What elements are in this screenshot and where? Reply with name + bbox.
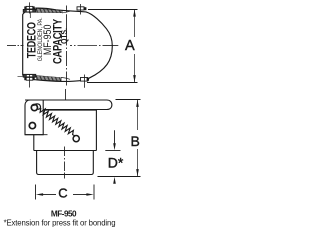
- bracket (lanyard tab): [25, 100, 43, 135]
- horizontal centerline (top view): [7, 45, 118, 47]
- bracket hole bottom: [29, 123, 35, 129]
- dimension D* top arrow and extension: [105, 150, 120, 152]
- side view extension (press-fit spigot): [37, 151, 94, 175]
- svg-text:*Extension for press fit or bo: *Extension for press fit or bonding: [4, 218, 116, 227]
- knurl band bottom: [36, 75, 61, 81]
- knurl band top: [36, 8, 62, 13]
- spring end ring: [73, 136, 79, 142]
- hinge lug bottom: [18, 74, 36, 88]
- svg-text:B: B: [131, 133, 140, 149]
- hinge lug top: [23, 2, 36, 13]
- svg-text:C: C: [58, 185, 67, 200]
- flange bottom second contour: [43, 109, 96, 111]
- bracket hole top: [31, 105, 37, 111]
- svg-text:A: A: [125, 38, 135, 54]
- dimension A extension lines: [88, 9, 138, 11]
- svg-text:QTS.: QTS.: [59, 28, 69, 44]
- spring lanyard coil: [40, 108, 75, 136]
- spring anchor clip bottom: [81, 75, 90, 88]
- side view vertical centerline: [64, 147, 66, 179]
- dimension D* bottom arrow: [114, 180, 116, 184]
- spring anchor clip top: [77, 4, 86, 15]
- svg-text:MF-950: MF-950: [51, 210, 77, 219]
- svg-text:D*: D*: [108, 155, 124, 171]
- top view cap outline: [23, 8, 113, 81]
- dimension B line with arrows: [137, 100, 139, 177]
- vertical centerline (top view + between views): [66, 6, 67, 111]
- dimension B extension lines: [116, 99, 141, 101]
- side view flange (cap top plate): [25, 100, 112, 110]
- hinge lug top neck: [29, 12, 31, 18]
- dimension C line with arrows: [43, 194, 88, 196]
- dimension C extension lines: [35, 185, 37, 200]
- spring lanyard hook: [34, 104, 41, 109]
- side view body (knurled skirt): [34, 110, 97, 151]
- dimension A line with arrows: [134, 10, 136, 82]
